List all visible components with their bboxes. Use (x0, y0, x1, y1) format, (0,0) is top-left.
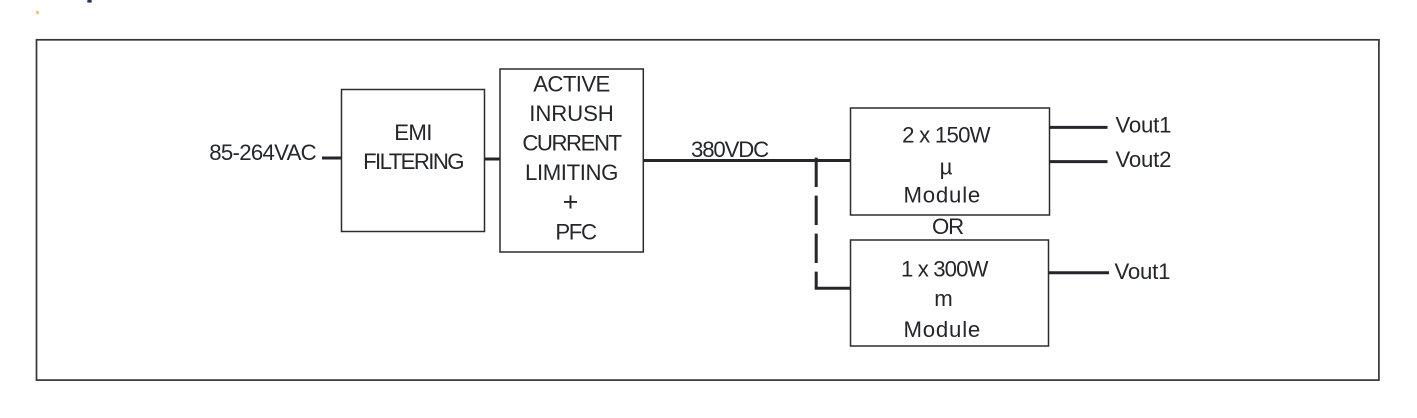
wire dashed branch to 1x300W module (815, 158, 818, 289)
svg-text:Module: Module (904, 317, 982, 342)
svg-text:+: + (563, 187, 579, 217)
svg-text:INRUSH: INRUSH (529, 101, 613, 126)
block EMI FILTERING (342, 90, 485, 232)
svg-text:FILTERING: FILTERING (363, 149, 463, 174)
svg-text:85-264VAC: 85-264VAC (209, 140, 316, 165)
block ACTIVE INRUSH CURRENT LIMITING + PFC (500, 69, 643, 252)
svg-text:CURRENT: CURRENT (522, 130, 622, 155)
wire Vout1 bottom (1049, 271, 1110, 274)
svg-text:380VDC: 380VDC (691, 137, 769, 162)
svg-text:ACTIVE: ACTIVE (533, 72, 610, 97)
wire 380VDC bus (643, 159, 850, 162)
svg-text:2 x 150W: 2 x 150W (902, 123, 991, 148)
block 2 x 150W uModule (851, 108, 1050, 215)
svg-text:Module: Module (904, 182, 982, 207)
wire Vout1 top (1049, 126, 1108, 129)
svg-text:LIMITING: LIMITING (525, 160, 618, 185)
svg-text:Vout1: Vout1 (1116, 113, 1172, 138)
svg-text:PFC: PFC (555, 219, 597, 244)
wire EMI to PFC (485, 158, 501, 161)
svg-text:1 x 300W: 1 x 300W (901, 257, 988, 282)
wire Vout2 (1049, 160, 1108, 163)
svg-text:m: m (934, 286, 952, 311)
svg-text:Vout2: Vout2 (1116, 147, 1172, 172)
wire AC input (322, 157, 342, 160)
svg-text:µ: µ (940, 155, 953, 180)
figure border frame (37, 40, 1379, 380)
wire branch bottom to module input (815, 287, 852, 290)
svg-text:EMI: EMI (394, 120, 432, 145)
svg-text:OR: OR (932, 214, 963, 239)
svg-text:Vout1: Vout1 (1115, 259, 1171, 284)
block 1 x 300W mModule (851, 240, 1049, 346)
